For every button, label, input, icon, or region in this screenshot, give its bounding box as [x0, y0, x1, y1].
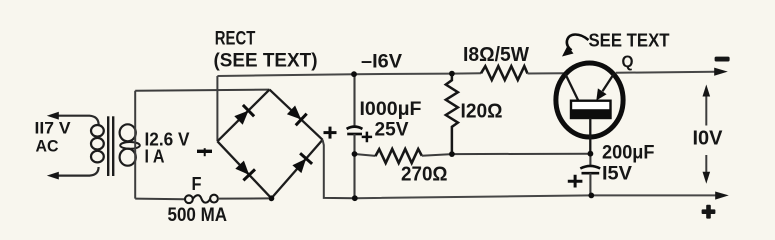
junction dot middle rail at C1 [352, 151, 358, 157]
fuse F body [185, 195, 193, 203]
transformer T1 primary winding loops [91, 125, 104, 137]
junction dot bottom rail at C2 [588, 193, 594, 199]
transistor Q collector line [565, 73, 579, 101]
svg-text:500 MA: 500 MA [168, 205, 228, 226]
junction dot bottom rail at C1 [352, 195, 358, 201]
wire: bottom rail (plus rail) [355, 195, 716, 198]
svg-text:–I6V: –I6V [361, 51, 402, 72]
junction dot middle rail at R2 [449, 151, 455, 157]
wire: bridge plus vertex down to bottom rail [323, 140, 355, 198]
bridge minus polarity mark [197, 150, 212, 153]
transistor Q emitter line with arrow [603, 73, 615, 91]
wire: middle rail 270ohm to transistor base junction [422, 154, 591, 156]
transistor Q base lead [589, 118, 591, 154]
svg-text:200μF: 200μF [602, 142, 655, 163]
output arrow plus terminal [715, 192, 729, 200]
label plus terminal [702, 205, 716, 219]
svg-text:(SEE TEXT): (SEE TEXT) [214, 50, 318, 71]
svg-text:SEE TEXT: SEE TEXT [589, 30, 670, 50]
transistor Q outline circle [556, 63, 623, 137]
dimension arrow 10V down [705, 155, 707, 173]
bridge rectifier side bottom-right [271, 140, 322, 199]
transformer T1 primary bottom lead with arrow [58, 167, 99, 176]
wire: rail from R1 to transistor circle [528, 72, 564, 74]
wire: middle rail from C1 to 270 ohm [355, 154, 376, 156]
capacitor C1 plates [347, 127, 363, 129]
curved arrow pointing to transistor [567, 35, 589, 51]
diode D3 lower-left [235, 161, 255, 181]
svg-text:25V: 25V [375, 119, 409, 140]
output arrow minus terminal [714, 68, 728, 76]
diode D4 lower-right [292, 153, 312, 173]
svg-text:I000μF: I000μF [360, 99, 422, 120]
transformer core bars [107, 116, 109, 176]
junction dot top rail at R2 [449, 71, 455, 77]
svg-text:I5V: I5V [602, 163, 632, 184]
bridge plus polarity mark [324, 131, 337, 134]
wire: secondary loop top side to bridge AC node [135, 90, 269, 91]
svg-text:AC: AC [36, 137, 59, 156]
bridge rectifier side top-left [217, 90, 269, 142]
svg-text:Q: Q [622, 52, 634, 71]
diode D2 upper-right [287, 106, 307, 126]
svg-text:I A: I A [145, 147, 165, 167]
capacitor C2 plus mark [568, 175, 583, 188]
wire: bridge minus vertex up to top rail [216, 76, 218, 141]
svg-text:F: F [192, 174, 202, 194]
bridge rectifier side bottom-left [217, 141, 271, 198]
transformer T1 primary top lead with arrow [58, 116, 99, 125]
dimension arrow 10V up [705, 96, 707, 126]
junction dot middle rail at base [588, 151, 594, 157]
svg-text:I20Ω: I20Ω [461, 100, 503, 122]
svg-text:II7 V: II7 V [35, 119, 72, 138]
svg-text:I8Ω/5W: I8Ω/5W [463, 44, 529, 66]
wire: fuse to bridge bottom AC node [218, 197, 269, 199]
capacitor C2 200uF upper stem [589, 154, 591, 166]
bridge rectifier side top-right [270, 90, 323, 140]
capacitor C1 plus mark [362, 132, 372, 143]
wire: top rail left section (-16V rail) [217, 73, 481, 76]
transistor Q base bar [571, 101, 611, 118]
svg-text:270Ω: 270Ω [401, 164, 448, 186]
wire: secondary loop left vertical [134, 91, 136, 199]
capacitor C2 plates [580, 166, 600, 169]
wire: rail transistor right side to minus output [616, 72, 715, 73]
resistor R1 18ohm/5W zigzag [481, 66, 528, 80]
diode D1 upper-left [234, 105, 254, 125]
wire: secondary loop bottom side to fuse [135, 198, 185, 201]
capacitor C2 lower stem [589, 173, 591, 195]
resistor R3 270ohm zigzag [375, 149, 421, 163]
junction dot top rail at C1 [351, 71, 357, 77]
transformer T1 secondary winding loops [120, 124, 136, 141]
capacitor C1 1000uF upper stem [353, 74, 355, 126]
resistor R2 120ohm zigzag vertical [446, 74, 458, 155]
capacitor C1 lower stem to bottom rail [353, 134, 355, 198]
junction dot bridge bottom AC vertex [269, 195, 275, 201]
svg-text:I0V: I0V [693, 127, 724, 149]
svg-text:RECT: RECT [215, 28, 256, 49]
label minus terminal [715, 57, 730, 62]
